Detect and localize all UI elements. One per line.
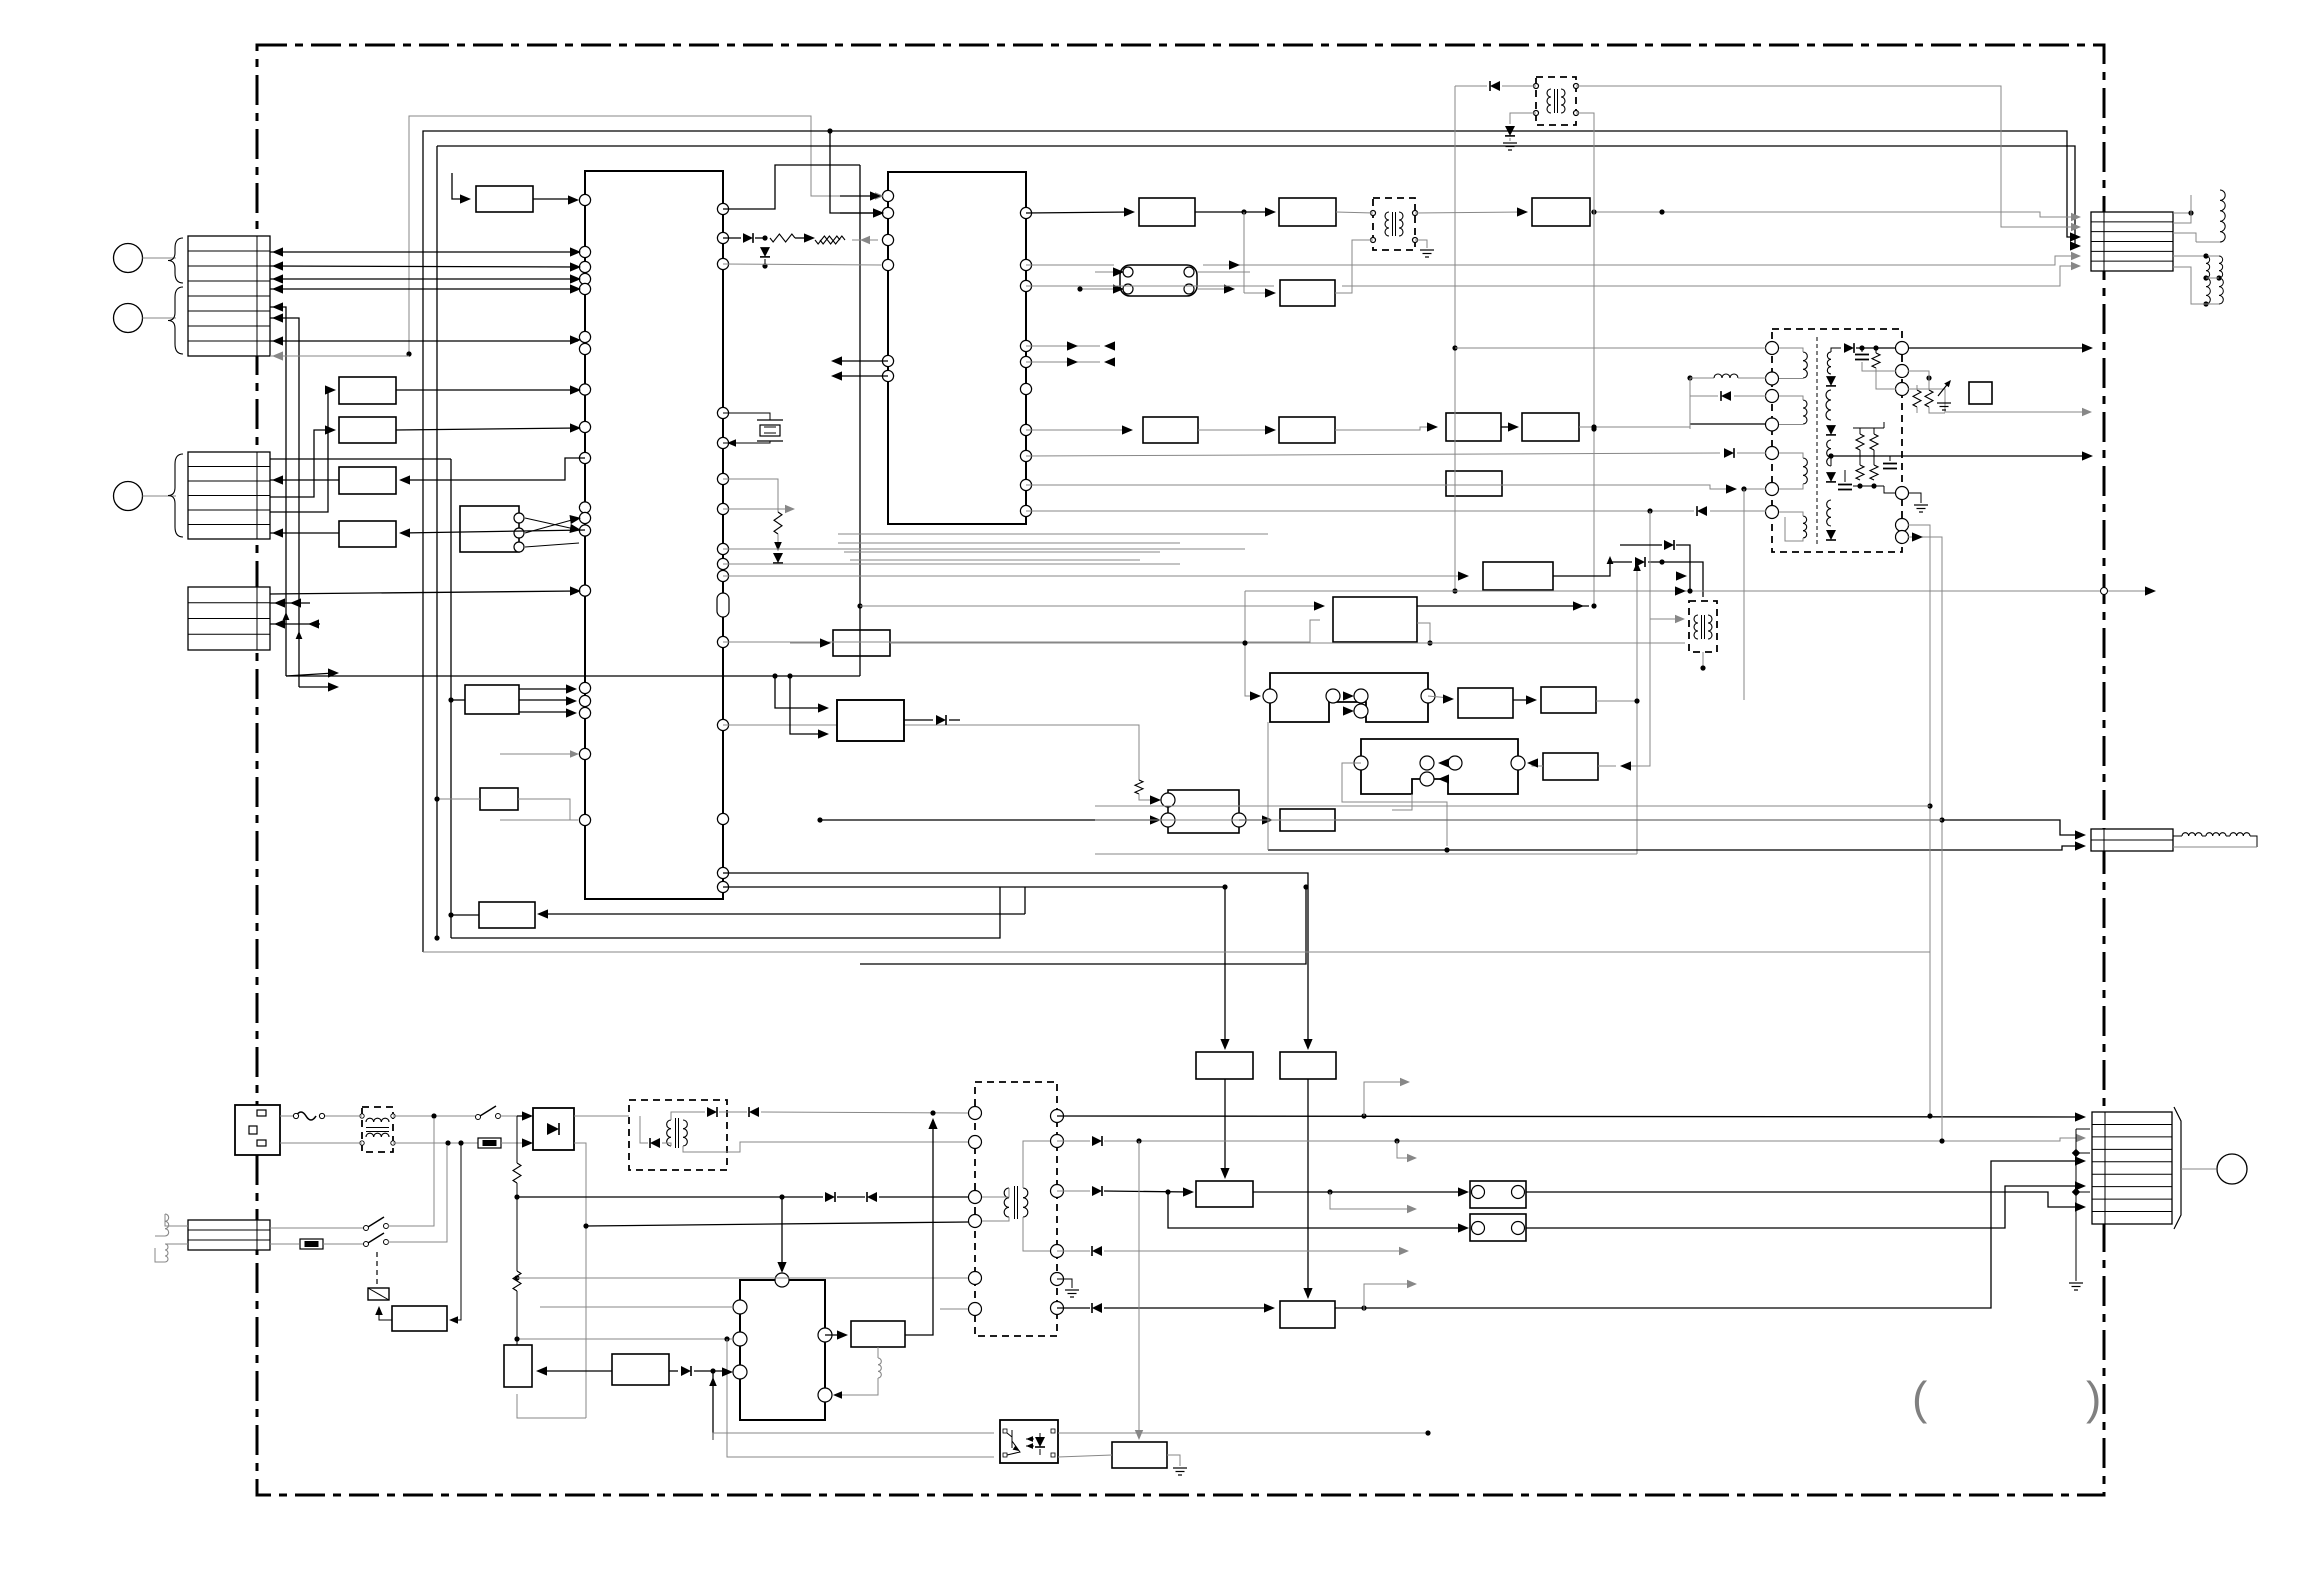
coil L31 bbox=[877, 1347, 879, 1358]
wire GB1 ground bbox=[1167, 1455, 1180, 1466]
wire IC1 pin819 bbox=[500, 819, 578, 821]
diode D11 resistor chain bbox=[723, 237, 741, 239]
wire A5 in bbox=[1244, 292, 1272, 294]
pulse transformer T103 dashed box bbox=[1689, 601, 1717, 652]
wire B2b out to CN5 bbox=[1335, 1161, 2080, 1308]
wire R1 to CN6 bbox=[1335, 820, 2080, 835]
wire IC1 pin754 bbox=[500, 753, 574, 755]
wire bus black top 1 bbox=[423, 131, 2076, 343]
wire snb1 bottom loop bbox=[517, 1394, 586, 1418]
block A1 bbox=[476, 186, 533, 212]
block B2b bbox=[1280, 1301, 1335, 1328]
wire Q1 in2 bbox=[820, 819, 1156, 821]
block E1 bbox=[1143, 417, 1198, 443]
wire loop vertical x860 bbox=[859, 165, 861, 676]
wire IC2 left 361 bbox=[836, 360, 888, 362]
wire bus vertical x423 bbox=[422, 343, 424, 952]
branch arrow 3 bbox=[1330, 1192, 1412, 1209]
wire CN3 row2 arrows bbox=[270, 602, 310, 604]
wire opto right bbox=[1058, 1432, 1428, 1434]
wire J1b out diode cluster bbox=[1553, 562, 1632, 576]
diode D31 bbox=[1620, 544, 1662, 546]
wire IC1 to IC2 y265 bbox=[723, 264, 881, 265]
resistor R21 bbox=[815, 236, 840, 244]
resistor R601 bbox=[516, 1116, 518, 1163]
wire bus vertical x451 bbox=[450, 459, 452, 938]
coil L11 bbox=[1690, 377, 1714, 379]
block T1b bbox=[837, 700, 904, 741]
connector CN4 bbox=[188, 1220, 270, 1250]
switcher block W1 bbox=[740, 1280, 825, 1420]
block N1 bbox=[1541, 687, 1596, 713]
wire dc to pwr 1222 bbox=[586, 1222, 968, 1226]
wire bus y543 bbox=[838, 542, 1180, 544]
diode D12 to T1 pin396 bbox=[1690, 395, 1718, 397]
main transformer T1 dashed box bbox=[1772, 329, 1902, 552]
inductor network CN7 right bbox=[2173, 212, 2191, 214]
block E2 bbox=[1279, 417, 1335, 443]
wire CN1 rows to IC1 bbox=[270, 251, 578, 253]
wire x933 up bbox=[905, 1120, 933, 1335]
wire branch arrows lower left bbox=[286, 673, 334, 676]
wire T1 493 ground bbox=[1908, 493, 1921, 503]
wire T1 537 to CN5 bbox=[1908, 537, 1942, 1141]
block SN1 bbox=[504, 1345, 532, 1387]
wire CN2 to U4 out bbox=[270, 532, 339, 534]
crystal X1 bbox=[723, 413, 770, 420]
block M1 bbox=[1458, 688, 1513, 718]
thermal fuse F601 bbox=[280, 1115, 296, 1117]
wire A5 to T102 bbox=[1335, 240, 1366, 293]
wire IC2 265 out bbox=[1026, 264, 1114, 266]
wire snb2 to W1 bbox=[669, 1370, 678, 1372]
wire IC2 456 to T1 453 bbox=[1026, 453, 1720, 456]
wire CN1 row8 bbox=[270, 355, 409, 357]
wire T102 to A4 bbox=[1415, 212, 1524, 213]
aux transformer T202 dashed box bbox=[629, 1100, 727, 1170]
block U3 bbox=[339, 467, 396, 494]
block U4 bbox=[339, 521, 396, 547]
wire IC1 pin564 bbox=[723, 563, 1180, 565]
wire gray nest 1 bbox=[1095, 805, 1930, 807]
line filter T201 dashed box bbox=[362, 1107, 393, 1152]
wire Z1 out bbox=[451, 914, 479, 916]
wire LK2 to CN5 bbox=[1526, 1186, 2080, 1228]
wire K1 in bbox=[860, 605, 1320, 607]
wire IC1 pin209 to loop bbox=[723, 165, 860, 209]
wire T103 bottom bbox=[1702, 652, 1704, 668]
wire bus y552 bbox=[844, 551, 1160, 553]
wire T1b inputs bbox=[775, 676, 824, 708]
wire opto right2 to GB1 bbox=[1058, 1455, 1112, 1457]
inductor L42 bbox=[165, 1243, 188, 1245]
wire x1637 vertical bbox=[1636, 566, 1638, 854]
wire IC2 pin361 362 bus arrows bbox=[1026, 345, 1100, 347]
wire CN2 row1 bbox=[270, 458, 451, 460]
wire gray nest 2 bbox=[1095, 819, 1942, 821]
block Y1 bbox=[480, 788, 518, 810]
block B2t bbox=[1280, 1052, 1336, 1079]
block A5 bbox=[1280, 280, 1335, 306]
wire U3 in bbox=[402, 458, 585, 480]
branch arrow 2 bbox=[1397, 1141, 1412, 1158]
block J1b bbox=[1483, 562, 1553, 590]
wire CN1 row5 bbox=[270, 307, 286, 608]
wire snb2 to snb1 bbox=[541, 1370, 612, 1372]
potentiometer VR1 bbox=[1913, 390, 1921, 407]
mechanical link bbox=[376, 1252, 378, 1288]
wire opto to W1 feedback bbox=[713, 1433, 994, 1440]
wire B1b out to LK1 bbox=[1253, 1191, 1465, 1193]
block E5 bbox=[1446, 471, 1502, 496]
wire E2 to E3 E4 bbox=[1335, 427, 1433, 430]
link block LK2 bbox=[1470, 1214, 1526, 1241]
wire X1 in bbox=[451, 699, 465, 701]
wire pwr y1308 diode to B2b bbox=[1057, 1307, 1090, 1309]
wire S1 out bbox=[890, 642, 1685, 644]
wire filter neutral bbox=[393, 1142, 478, 1144]
wire W1 pin 1339 to opto bbox=[517, 1338, 733, 1340]
wire to LK2 bbox=[1168, 1192, 1465, 1228]
block GB1 bbox=[1112, 1442, 1167, 1468]
svg-text:): ) bbox=[2086, 1372, 2101, 1424]
wire IC1 pin549 to L1 bbox=[723, 548, 1245, 550]
wire T101 bottom right bbox=[1576, 113, 1594, 606]
wire filter to switch bbox=[393, 1115, 476, 1117]
block V1 output pins bbox=[514, 513, 524, 523]
link block LK1 bbox=[1470, 1181, 1526, 1208]
wire bus vertical x437 bbox=[436, 146, 438, 938]
block SN2 bbox=[612, 1354, 669, 1385]
wire ac neutral to filter bbox=[280, 1142, 362, 1144]
block Z1 bbox=[479, 902, 535, 928]
wire IC1 pin576 to J1b bbox=[723, 575, 1464, 577]
fuse F603 bbox=[270, 1243, 299, 1245]
block Q1 bbox=[1168, 790, 1239, 833]
connector CN5 bbox=[2092, 1112, 2172, 1224]
block OS1 bbox=[851, 1321, 905, 1347]
jack J1 bbox=[114, 244, 143, 273]
pulse transformer T102 dashed box bbox=[1373, 198, 1415, 250]
wire A1 output bbox=[533, 198, 574, 200]
block U1 bbox=[339, 377, 396, 404]
block E3 bbox=[1446, 413, 1501, 441]
wire W1 top in bbox=[781, 1197, 783, 1269]
bridge rectifier D601 bbox=[533, 1108, 574, 1150]
wire W1 pin 1307 bbox=[540, 1306, 733, 1308]
block SQ1 bbox=[1969, 382, 1992, 404]
voltage selector switch S602 bbox=[270, 1227, 364, 1229]
wire CN1 row6 bbox=[270, 318, 299, 627]
ground bus CN5 bbox=[2076, 1128, 2090, 1130]
branch arrow 4 bbox=[1364, 1284, 1412, 1311]
wire U1 to IC1 bbox=[396, 389, 578, 391]
wire pwr y1279 ground bbox=[1057, 1279, 1072, 1288]
wire CN2 to U1 via x328 bbox=[270, 390, 333, 512]
wire IC2 485 to T1 489 bbox=[1026, 485, 1732, 489]
block A2 bbox=[1139, 198, 1195, 226]
wire relay driver input bbox=[456, 1143, 461, 1320]
wire CN1 row7 bbox=[270, 340, 578, 342]
connector CN8 bbox=[2091, 829, 2173, 851]
wire y591 long bbox=[1245, 590, 2150, 592]
connector CN3 bbox=[188, 587, 270, 650]
delay line DL1 bbox=[1120, 265, 1197, 296]
wire bus y952 gray bbox=[423, 951, 1930, 953]
logic block O1 bbox=[1361, 739, 1518, 794]
wire T1 389 out gray bbox=[1908, 389, 2087, 412]
wire A1 input bbox=[452, 173, 466, 199]
wire Y1 bbox=[437, 798, 480, 800]
wire A3 to T102 bbox=[1336, 212, 1373, 213]
wire IC1 pin725 to Q1 bbox=[723, 725, 1139, 780]
wire vertical x1455 bbox=[1454, 86, 1456, 592]
voltage selector switch S603 bbox=[323, 1243, 364, 1245]
wire pwr 1309 stub bbox=[940, 1308, 968, 1310]
wire aux neutral to power ic bbox=[720, 1142, 968, 1152]
ac inlet J601 bbox=[235, 1105, 280, 1155]
logic block L1 bbox=[1270, 673, 1428, 722]
wire L1 to M1 bbox=[1428, 696, 1450, 698]
ground T102 bbox=[1415, 240, 1427, 248]
wire W1 to OS1 bbox=[825, 1334, 844, 1336]
wire T1 525 to CN5 bbox=[1908, 525, 1930, 1116]
inductor L41 bbox=[165, 1214, 188, 1226]
power switching ic IC601 dashed box bbox=[975, 1082, 1057, 1336]
jack J2 bbox=[114, 304, 143, 333]
block B1b bbox=[1196, 1181, 1253, 1207]
block X1 bbox=[465, 685, 519, 714]
wire CN3 row1 bbox=[270, 591, 578, 594]
block R1 bbox=[1280, 809, 1335, 831]
optocoupler PC601 bbox=[1000, 1420, 1058, 1463]
wire T1 pin348 gray bbox=[1455, 347, 1766, 349]
wire Z1 in bbox=[541, 913, 1025, 915]
jack J4 bbox=[2181, 1168, 2216, 1170]
wire second to CN6 bbox=[1268, 846, 2080, 850]
wire M1 to N1 bbox=[1513, 699, 1533, 701]
connector CN2 bbox=[188, 452, 270, 539]
wire IC2 to E1 bbox=[1026, 429, 1128, 431]
wire gray vertical x1744 bbox=[1743, 489, 1745, 700]
bracket CN5 bbox=[2174, 1107, 2181, 1229]
wire pwr y1251 gray arrow bbox=[1057, 1250, 1090, 1252]
wire bridge minus down bbox=[574, 1143, 586, 1418]
pulse transformer T101 dashed box bbox=[1536, 77, 1576, 125]
wire bridge plus bbox=[574, 1115, 629, 1117]
block A3 bbox=[1279, 198, 1336, 226]
wire P1 in from T1 bbox=[1624, 511, 1650, 766]
wire L1 in bbox=[1245, 591, 1256, 696]
block E4 bbox=[1522, 413, 1579, 441]
wire CN3 row3 arrows bbox=[270, 623, 320, 625]
block U2 bbox=[339, 417, 396, 443]
wire bus black top 2 bbox=[437, 146, 2076, 246]
wire T1 pin424 bbox=[1690, 423, 1766, 425]
wire pwr y1191 diode to B1b bbox=[1057, 1190, 1090, 1192]
wire bus gray top bbox=[409, 116, 811, 354]
connector CN1 bbox=[188, 236, 270, 356]
block A4 bbox=[1532, 198, 1590, 226]
wire A4 out bbox=[1590, 212, 2076, 217]
relay driver wire bbox=[379, 1309, 392, 1320]
wire T101 gray loop bbox=[1455, 85, 1487, 87]
wire GB1 top in bbox=[1138, 1141, 1140, 1436]
wire bus y887 bbox=[723, 887, 1225, 1046]
wire IC1 pin509 arrow bbox=[723, 508, 790, 510]
wire B2t to B2b bbox=[1307, 1079, 1309, 1295]
block K1 bbox=[1333, 597, 1417, 642]
wire U2 to IC1 bbox=[396, 428, 578, 430]
inductor network CN8 right bbox=[2173, 835, 2182, 837]
wire V1 cross to IC1 bbox=[525, 518, 579, 530]
connector CN7 bbox=[2091, 212, 2173, 271]
wire Q1 to R1 bbox=[1239, 819, 1269, 821]
wire IC2 to A2 bbox=[1026, 212, 1131, 213]
wire O1 left out bbox=[1342, 763, 1447, 846]
wire bus y873 bbox=[723, 873, 1308, 1046]
wire T1 348 out bbox=[1908, 347, 2088, 349]
wire IC2 511 to T1 512 bbox=[1026, 510, 1694, 512]
jack J3 bbox=[114, 482, 143, 511]
wire loop left bbox=[286, 675, 860, 677]
resistor R602 bbox=[513, 1271, 521, 1291]
wire P1 to O1 bbox=[1530, 763, 1543, 766]
wire bus black top 1a bbox=[830, 131, 880, 213]
wire N1 out bbox=[1596, 700, 1637, 702]
block P1 bbox=[1543, 753, 1598, 780]
wire T101 out bbox=[1576, 86, 2076, 227]
wire X1 out triple bbox=[519, 688, 572, 690]
wire bus y534 bbox=[838, 533, 1268, 535]
relay RY601 bbox=[368, 1288, 389, 1300]
wire T1b out diode bbox=[904, 719, 933, 721]
wire IC1 pin479 resistor bbox=[723, 479, 778, 512]
wire aux to power ic bbox=[719, 1111, 747, 1113]
wire E4 out bbox=[1579, 378, 1690, 427]
wire IC2 in arrows bbox=[840, 195, 876, 197]
wire T1 456 out bbox=[1831, 455, 2088, 457]
wire S1 in bbox=[790, 642, 827, 644]
power switch S601 bbox=[476, 1115, 481, 1120]
wire dc rail y1197 bbox=[517, 1196, 823, 1198]
wire IC2 286 bbox=[1026, 285, 1274, 287]
wire dc to pwr 1278 bbox=[517, 1277, 968, 1279]
wire pwr y1116 to CN5 bbox=[1057, 1116, 2080, 1117]
wire bus y938 bbox=[451, 887, 1000, 938]
ic IC1 bbox=[585, 171, 723, 899]
wire loop bottom bbox=[859, 676, 861, 964]
wire B1t to B1b bbox=[1224, 1079, 1226, 1175]
block V1 bbox=[460, 506, 519, 552]
svg-text:(: ( bbox=[1912, 1372, 1928, 1424]
fuse F602 bbox=[478, 1138, 501, 1148]
board outline dashed border bbox=[257, 45, 2104, 1495]
wire K1 out2 bbox=[1417, 623, 1430, 643]
wire U4 in bbox=[402, 530, 585, 533]
wire A2 to A3 bbox=[1195, 211, 1272, 213]
block B1t bbox=[1196, 1052, 1253, 1079]
wire CN2 to U3 bbox=[270, 479, 339, 481]
wire T101 bottom left diode bbox=[1510, 113, 1536, 124]
wire DL1 out bbox=[1197, 288, 1230, 290]
block S1 bbox=[833, 630, 890, 656]
ic IC2 bbox=[888, 172, 1026, 524]
wire E1 to E2 bbox=[1198, 429, 1272, 431]
wire LK1 to CN5 bbox=[1526, 1192, 2080, 1207]
wire DL1 in bbox=[1095, 271, 1120, 273]
wire pwr y1141 gray bbox=[1057, 1140, 1090, 1142]
wire CN2 to U2 via x314 bbox=[270, 430, 333, 497]
wire T103 upper pin bbox=[1650, 618, 1680, 620]
wire W1 pin 1372 in bbox=[712, 1371, 714, 1440]
branch arrow 1 bbox=[1364, 1082, 1405, 1116]
wire IC1 pin642 to K1 bbox=[723, 620, 1320, 642]
wire CN3 vertical stubs bbox=[285, 608, 287, 676]
block RD1 bbox=[392, 1306, 447, 1331]
wire K1 out bbox=[1417, 605, 1589, 607]
wire bus y560 bbox=[850, 559, 1140, 561]
wire E3 to E4 bbox=[1501, 426, 1515, 428]
wire O1 notch in bbox=[1392, 794, 1412, 810]
